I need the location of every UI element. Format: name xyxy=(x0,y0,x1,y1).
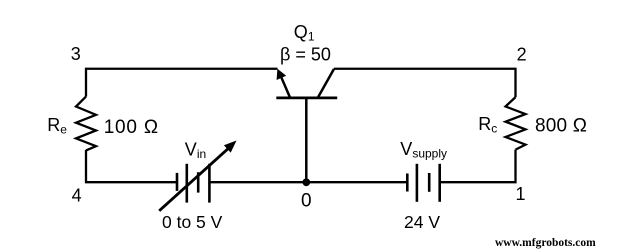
svg-text:β = 50: β = 50 xyxy=(280,44,331,64)
battery Vsupply xyxy=(407,164,439,202)
transistor Q1 xyxy=(276,69,337,98)
svg-text:1: 1 xyxy=(515,184,525,204)
svg-text:0: 0 xyxy=(301,190,312,211)
wire (node 0 to Vsupply battery) xyxy=(306,181,406,183)
svg-text:Vin: Vin xyxy=(185,140,206,161)
svg-text:Q1: Q1 xyxy=(294,22,315,43)
wire (Re bottom to node 4 corner to Vin battery) xyxy=(86,150,176,182)
svg-text:2: 2 xyxy=(517,45,527,65)
wire (Rc top to node 2 corner to Q1 collector) xyxy=(334,69,516,97)
resistor Re xyxy=(76,97,96,151)
wire (Vin battery to node 0) xyxy=(210,181,306,183)
node 0 junction dot xyxy=(302,178,310,186)
svg-text:100 Ω: 100 Ω xyxy=(104,117,159,138)
wire top-left (node 3 corner to Q1 emitter arrow) xyxy=(86,69,278,97)
wire (Q1 base to node 0) xyxy=(305,99,308,182)
resistor Rc xyxy=(506,97,526,150)
svg-text:Re: Re xyxy=(47,115,67,137)
battery Vin xyxy=(177,164,209,203)
svg-text:3: 3 xyxy=(71,44,81,64)
svg-text:0 to 5 V: 0 to 5 V xyxy=(162,212,223,232)
svg-text:4: 4 xyxy=(72,185,82,205)
wire (Vsupply battery to node 1 corner to Rc bottom) xyxy=(441,150,516,183)
svg-text:Vsupply: Vsupply xyxy=(400,139,447,160)
svg-text:800 Ω: 800 Ω xyxy=(535,115,587,136)
svg-text:Rc: Rc xyxy=(478,114,497,136)
variable-source arrow through Vin xyxy=(159,141,236,211)
svg-text:www.mfgrobots.com: www.mfgrobots.com xyxy=(495,237,596,249)
svg-text:24 V: 24 V xyxy=(404,212,440,232)
